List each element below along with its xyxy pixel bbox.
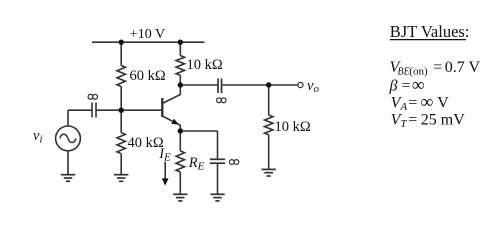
resistor R 60k zigzag [117,66,125,87]
svg-text:β=∞: β=∞ [389,74,425,94]
ground under 40k [114,175,128,182]
svg-text:10 kΩ: 10 kΩ [187,57,223,73]
wire RE top lead [179,131,181,151]
wire 60k top lead [120,42,122,65]
transistor Q1 collector line [162,85,180,104]
node dot emitter [178,128,183,133]
source vi sine [60,134,76,142]
transistor Q1 base bar [161,98,163,117]
node dot supply-60k [119,40,124,45]
wire cap to output node [222,84,269,86]
svg-text:+10 V: +10 V [130,27,165,42]
transistor Q1 emitter arrowhead [171,119,179,125]
label infinity bypass cap [229,160,238,165]
ground under vi [61,175,75,182]
capacitor Cin plates [91,103,93,118]
wire vi vertical top [67,110,69,126]
wire bypass bottom lead [217,163,219,194]
source vi circle [56,126,81,151]
wire bypass top lead [217,131,219,159]
wire vi vertical bottom [67,151,69,175]
capacitor Cout plates [217,79,219,94]
ground under RE [173,194,187,201]
wire load top lead [268,85,270,115]
svg-text:VA=∞V: VA=∞V [391,92,450,114]
heading underline [390,39,466,41]
node dot supply-10k [178,40,183,45]
wire base line [96,109,162,111]
ground under load [262,169,276,176]
arrow IE head [162,178,169,185]
svg-text:BJT Values:: BJT Values: [390,22,470,41]
resistor RE zigzag [176,151,184,172]
wire load bottom lead [268,135,270,170]
node dot output [266,82,271,87]
wire 40k top lead [120,110,122,132]
svg-text:60 kΩ: 60 kΩ [130,68,166,84]
arrow IE shaft [164,162,166,180]
resistor RC 10k zigzag [176,56,184,76]
wire output node to vo terminal [269,84,298,86]
wire output line collector to cap [180,84,218,86]
wire 10k collector bottom lead [179,75,181,85]
terminal vo open circle [298,82,303,87]
capacitor CE plates [210,158,225,160]
label infinity input cap [88,94,97,99]
node dot collector [178,82,183,87]
wire 60k bottom lead [120,87,122,111]
svg-text:10 kΩ: 10 kΩ [275,119,311,135]
resistor R 40k zigzag [117,133,125,154]
wire emitter to bypass branch [180,130,217,132]
node dot base [119,108,124,113]
ground under bypass cap [210,194,224,201]
wire RE bottom lead [179,172,181,194]
wire top supply rail [92,41,205,43]
wire 10k collector top lead [179,42,181,55]
transistor Q1 emitter line [162,116,180,131]
wire input segment [68,109,92,111]
wire 40k bottom lead [120,154,122,175]
resistor RL 10k zigzag [265,115,273,135]
label infinity output cap [217,98,226,103]
